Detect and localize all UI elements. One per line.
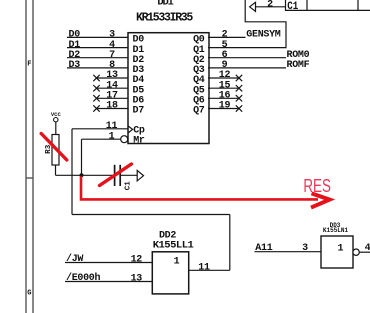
DD1 pin names Q0-Q7: [193, 35, 205, 117]
capacitor C1 plates: [115, 165, 121, 186]
DD1 pin name Cp with clock symbol: [128, 126, 133, 133]
wire /E000h net: [65, 281, 152, 283]
wire Mr net vertical: [81, 139, 83, 175]
svg-text:VCC: VCC: [51, 111, 62, 118]
svg-text:DD1: DD1: [157, 0, 173, 8]
svg-text:11: 11: [106, 121, 118, 132]
svg-text:1: 1: [338, 243, 344, 254]
no-connect X pin 18: [93, 105, 99, 111]
red RES annotation elbow: [81, 176, 318, 199]
stub pin 13: [97, 77, 129, 79]
wire Cp net vertical: [71, 129, 73, 215]
svg-text:ROMF: ROMF: [287, 60, 310, 71]
svg-text:1: 1: [109, 131, 115, 142]
svg-text:/E000h: /E000h: [66, 272, 101, 284]
svg-text:D7: D7: [133, 106, 145, 117]
wire Mr net horizontal: [82, 138, 121, 140]
svg-text:A11: A11: [255, 243, 272, 254]
svg-text:/JW: /JW: [66, 253, 83, 265]
wire Cp net bottom horizontal: [72, 214, 230, 216]
svg-text:13: 13: [131, 274, 143, 285]
stub pin 12: [208, 77, 239, 79]
stub pin 17: [97, 97, 129, 99]
svg-text:C1: C1: [124, 181, 132, 191]
svg-text:GENSYM: GENSYM: [246, 30, 281, 41]
svg-text:D3: D3: [69, 60, 81, 71]
junction dot: [80, 173, 84, 177]
wire D0 net: [67, 36, 128, 38]
gate DD2 body: [152, 252, 188, 294]
wire /JW net: [65, 262, 152, 264]
wire A11 net: [255, 251, 322, 253]
wire D3 net: [67, 67, 128, 69]
red strike over R3: [41, 134, 67, 161]
hierarchical label triangle right: [137, 170, 143, 181]
svg-text:K155LL1: K155LL1: [153, 240, 194, 252]
wire Q2 ROM0 net: [208, 57, 286, 59]
svg-text:12: 12: [131, 255, 143, 266]
red RES arrowhead: [311, 193, 330, 207]
svg-text:2: 2: [267, 0, 273, 10]
wire capacitor to hier label: [120, 174, 137, 176]
svg-text:19: 19: [219, 101, 231, 112]
DD1 pin names D0-D7: [133, 35, 145, 117]
DD1 Mr inversion bubble pin 1: [121, 136, 128, 143]
wire Q0 GENSYM net: [208, 36, 246, 38]
wire R3 bottom lead: [55, 165, 57, 175]
DD3 output inversion bubble: [353, 249, 359, 255]
stub pin 14: [97, 87, 129, 89]
hierarchical pin triangle top: [250, 2, 256, 11]
wire D2 net: [67, 57, 128, 59]
gate DD3 body: [321, 236, 353, 268]
svg-text:Q7: Q7: [193, 106, 205, 117]
no-connect X pin 12: [236, 75, 242, 81]
wire Cp net horizontal: [72, 128, 128, 130]
sheet box C1: [286, 0, 370, 10]
stub pin 19: [208, 108, 239, 110]
svg-text:F: F: [27, 61, 31, 69]
no-connect X pin 17: [93, 95, 99, 101]
register DD1 body: [128, 33, 209, 144]
svg-text:11: 11: [198, 263, 210, 274]
no-connect X pin 16: [236, 95, 242, 101]
wire Cp net to DD2 output: [229, 215, 231, 271]
wire to sheet C1: [256, 6, 286, 8]
svg-text:K155LN1: K155LN1: [323, 227, 349, 234]
svg-text:RES: RES: [303, 176, 331, 196]
stub pin 16: [208, 97, 239, 99]
svg-text:18: 18: [106, 101, 118, 112]
svg-text:G: G: [27, 290, 31, 298]
wire DD2 output: [189, 269, 230, 271]
svg-text:4: 4: [365, 243, 370, 254]
no-connect X pin 14: [93, 85, 99, 91]
no-connect X pin 13: [93, 75, 99, 81]
svg-text:3: 3: [302, 243, 308, 254]
no-connect X pin 19: [236, 105, 242, 111]
wire D1 net: [67, 47, 128, 49]
svg-text:KR1533IR35: KR1533IR35: [136, 12, 193, 25]
no-connect X pin 15: [236, 85, 242, 91]
wire Q1 net route: [208, 0, 286, 48]
red strike over C1: [100, 164, 132, 186]
wire DD3 output: [359, 251, 370, 253]
wire Q3 ROMF net: [208, 67, 286, 69]
resistor R3: [52, 135, 59, 166]
stub pin 15: [208, 87, 239, 89]
svg-text:C1: C1: [287, 1, 298, 13]
stub pin 18: [97, 108, 129, 110]
svg-text:1: 1: [174, 256, 180, 267]
wire RC node horizontal: [56, 174, 115, 176]
sheet border left double line: [26, 0, 33, 313]
svg-text:Mr: Mr: [133, 136, 145, 147]
